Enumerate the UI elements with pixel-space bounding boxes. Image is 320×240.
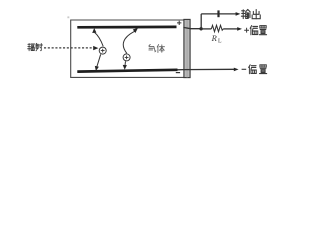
plate - polarity sign [176,72,180,74]
faint scan speck [67,16,69,18]
output arrowhead [236,12,241,16]
svg-text:L: L [218,38,222,44]
electron path 1 (curve to anode) [94,32,103,46]
wire: anode plate through window bar to junction [183,27,201,28]
svg-text:R: R [211,33,218,43]
resistor RL lead-out [223,28,238,30]
-bias arrowhead [234,68,239,72]
radiation arrowhead [93,46,98,50]
ion pair 1 circle (+) [99,47,106,54]
+bias arrowhead [237,27,242,31]
electron path 2 (curve to anode) [123,31,134,53]
resistor RL lead-in [201,28,211,30]
junction dot [199,27,202,30]
label -偏置 (-bias) [242,68,247,70]
radiation dashed ray [44,47,93,49]
top plate (anode) [77,26,176,29]
wire: junction up to output line [200,14,202,29]
label 辐射 (radiation) [28,43,43,50]
resistor RL zigzag [211,25,223,31]
chamber outer case (left, top, bottom walls) [71,20,184,77]
wire: output line [201,13,237,15]
positive ion path 1 (to cathode) [97,54,101,67]
bottom plate (cathode) [77,70,177,72]
label 输出 (output) [241,10,260,19]
positive ion path 2 (to cathode) [124,61,127,66]
coupling capacitor tick [217,10,219,17]
wire: cathode to -bias [178,68,236,71]
label 气体 (gas) [149,44,165,52]
ion pair 2 circle (+) [123,54,130,61]
label +偏置 (+bias) [244,28,249,33]
chamber window bar (right wall electrode) [184,19,190,77]
white paper background [0,0,299,92]
plate + polarity sign [177,21,181,25]
